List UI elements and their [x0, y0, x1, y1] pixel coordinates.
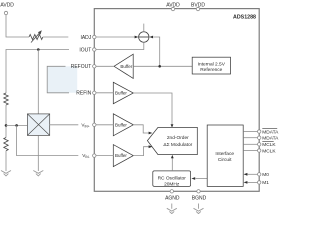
- chip box U1 (ADS1288 outline): [94, 9, 259, 192]
- svg-text:MDATA: MDATA: [262, 129, 279, 135]
- resistor R2 (bias upper): [4, 93, 8, 105]
- svg-text:MCLK: MCLK: [262, 142, 276, 148]
- svg-text:Interface: Interface: [215, 151, 234, 157]
- node D (junction REFOUT net): [158, 65, 161, 68]
- wire MDATA2: [243, 137, 257, 139]
- svg-text:AVDD: AVDD: [0, 3, 14, 9]
- pin IADJ: [80, 35, 96, 41]
- arrow into current source left: [135, 36, 139, 39]
- svg-text:M1: M1: [262, 180, 269, 186]
- block U3 (Internal 2.5V Reference): [192, 57, 230, 74]
- pin VIN+: [81, 122, 96, 128]
- wire MCLK2: [243, 150, 257, 152]
- wire M1: [248, 181, 258, 183]
- pin IOUT: [79, 47, 96, 53]
- ground BGND: [194, 208, 204, 213]
- wire REFOUT to REFIN loop: [47, 66, 69, 93]
- svg-text:IOUT: IOUT: [79, 47, 91, 53]
- pin AVDD (top): [166, 2, 180, 10]
- wire REFIN pin to buffer: [96, 92, 113, 94]
- svg-text:2nd-Order: 2nd-Order: [167, 135, 189, 141]
- pin VIN-: [82, 153, 96, 159]
- ground (sensor): [33, 171, 43, 176]
- wire VIN+ buffer to modulator: [133, 125, 149, 133]
- wire AVDD down: [6, 15, 29, 37]
- wire junction to sensor top: [37, 50, 39, 114]
- svg-text:Internal 2.5V: Internal 2.5V: [198, 62, 226, 68]
- pin REFIN: [76, 91, 96, 97]
- svg-text:IADJ: IADJ: [80, 35, 91, 41]
- pin BGND (bottom): [192, 190, 207, 202]
- arrow into modulator top: [171, 124, 174, 127]
- node A (junction left bias): [5, 124, 8, 127]
- svg-text:Buffer: Buffer: [115, 122, 127, 127]
- svg-text:AGND: AGND: [165, 196, 180, 202]
- wire current source bottom to IOUT: [96, 42, 144, 49]
- wire R2 to node: [5, 105, 7, 138]
- sensor X1 (geophone bridge box): [27, 114, 49, 135]
- wire MDATA1: [243, 131, 257, 133]
- svg-text:BGND: BGND: [192, 196, 207, 202]
- wire MCLK1: [243, 143, 257, 145]
- pin MCLK: [258, 148, 277, 154]
- block U7 (2nd-Order delta-sigma modulator): [147, 127, 197, 154]
- wire IOUT net: [6, 50, 69, 94]
- wire IADJ to current source: [96, 36, 135, 38]
- capacitor region tint (REFOUT loop): [47, 66, 77, 93]
- wire R3 to ground: [5, 151, 7, 171]
- arrow into oscillator right: [191, 177, 195, 180]
- wire VIN+ pin to buffer: [96, 124, 113, 126]
- ground AGND: [167, 208, 177, 213]
- wire current source right to REFOUT net: [154, 37, 160, 66]
- resistor R1 (variable, IADJ set): [29, 30, 43, 42]
- svg-text:20MHz: 20MHz: [164, 181, 180, 187]
- op-amp U2 (REFOUT buffer, points left): [114, 54, 133, 78]
- wire sensor bottom to ground: [37, 135, 39, 171]
- pin MDATA (inverted): [258, 129, 280, 136]
- ground (left bias): [1, 171, 11, 176]
- wire VIN- buffer to modulator: [133, 147, 149, 156]
- resistor R3 (bias lower): [4, 138, 8, 151]
- op-amp U4 (REFIN buffer): [113, 82, 133, 103]
- svg-text:ADS1288: ADS1288: [233, 14, 256, 20]
- wire REFIN buffer to modulator top: [133, 93, 172, 124]
- block U9 (Interface Circuit): [207, 125, 243, 186]
- arrow M0 into interface: [244, 173, 248, 176]
- svg-text:ΔΣ Modulator: ΔΣ Modulator: [163, 142, 192, 148]
- arrow into current source right: [149, 36, 153, 39]
- pin MDATA: [258, 136, 280, 142]
- block U8 (RC Oscillator 20MHz): [153, 171, 191, 188]
- svg-text:M0: M0: [262, 172, 269, 178]
- wire VIN- external: [17, 125, 79, 155]
- current source I1: [139, 24, 149, 43]
- wire sensor to VIN+ pin: [50, 124, 79, 126]
- wire M0: [248, 173, 258, 175]
- arrow into modulator bottom: [171, 155, 174, 158]
- svg-text:REFIN: REFIN: [76, 91, 91, 97]
- wire AGND stub: [171, 204, 173, 209]
- op-amp U5 (VIN+ buffer): [113, 114, 133, 136]
- svg-text:Reference: Reference: [200, 67, 222, 73]
- wire interface to oscillator: [196, 178, 208, 180]
- wire oscillator to modulator: [171, 158, 173, 171]
- svg-text:MCLK: MCLK: [262, 148, 276, 154]
- node C (junction on IOUT line): [37, 48, 40, 51]
- pin M1: [258, 180, 270, 186]
- wire buffer input from reference: [133, 65, 192, 67]
- svg-text:MDATA: MDATA: [262, 136, 279, 142]
- arrow M1 into interface: [244, 181, 248, 184]
- op-amp U6 (VIN- buffer): [113, 145, 133, 167]
- wire buffer output to REFOUT pin: [96, 65, 114, 67]
- wire node A to sensor: [6, 124, 27, 126]
- svg-text:REFOUT: REFOUT: [71, 64, 92, 70]
- node AVDD (external supply, top-left): [0, 3, 14, 15]
- svg-text:Buffer: Buffer: [115, 91, 127, 96]
- pin M0: [258, 172, 270, 178]
- svg-text:Buffer: Buffer: [115, 153, 127, 158]
- node B (VIN- tap junction): [15, 124, 18, 127]
- svg-text:RC Oscillator: RC Oscillator: [158, 176, 187, 182]
- pin AGND (bottom): [165, 190, 180, 202]
- arrow into modulator in+: [149, 132, 153, 135]
- pin BVDD (top): [191, 2, 205, 10]
- pin REFOUT: [71, 64, 96, 70]
- wire BGND stub: [198, 204, 200, 209]
- wire R1 to IADJ pin: [43, 36, 69, 38]
- svg-text:Circuit: Circuit: [218, 157, 232, 163]
- arrow into modulator in-: [149, 145, 153, 148]
- wire VIN- pin to buffer: [96, 155, 113, 157]
- svg-text:Buffer: Buffer: [120, 64, 132, 69]
- pin MCLK (inverted): [258, 141, 277, 148]
